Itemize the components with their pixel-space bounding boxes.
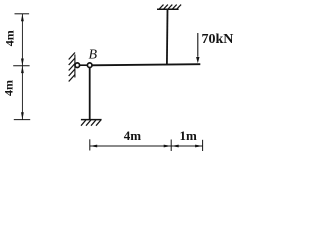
wall line of pin support bbox=[74, 55, 76, 78]
ceiling line of top fixed support bbox=[157, 8, 179, 10]
dimension arrow up from below middle tick bbox=[21, 66, 24, 73]
dimension arrow down to middle tick bbox=[21, 59, 24, 66]
base line of bottom fixed support bbox=[81, 119, 102, 121]
bottom arrow left of 1m bbox=[171, 145, 179, 148]
wall hatch 3 bbox=[69, 64, 75, 71]
svg-text:B: B bbox=[89, 48, 98, 63]
ceiling hatch 4 bbox=[172, 5, 176, 9]
svg-text:4m: 4m bbox=[124, 128, 142, 143]
dimension arrow down bottom bbox=[21, 112, 24, 119]
dimension line left vertical bbox=[21, 14, 23, 120]
dimension arrow up top bbox=[21, 14, 24, 21]
svg-text:70kN: 70kN bbox=[202, 32, 234, 47]
dimension line bottom horizontal bbox=[90, 145, 203, 147]
hinge circle at node B bbox=[87, 63, 92, 68]
bottom arrow right of 1m bbox=[195, 145, 203, 148]
pin circle at wall bbox=[75, 63, 80, 68]
wall hatch 2 bbox=[69, 58, 75, 65]
wall hatch 1 bbox=[69, 53, 75, 60]
base hatch 1 bbox=[81, 120, 86, 126]
dimension tick bottom bbox=[14, 119, 30, 121]
base hatch 2 bbox=[86, 120, 91, 126]
svg-text:4m: 4m bbox=[3, 30, 17, 46]
bottom tick middle bbox=[170, 140, 172, 152]
ceiling hatch 1 bbox=[159, 5, 163, 9]
base hatch 3 bbox=[91, 120, 96, 126]
svg-text:4m: 4m bbox=[2, 80, 16, 96]
ceiling hatch 2 bbox=[164, 5, 168, 9]
ceiling hatch 5 bbox=[177, 5, 181, 9]
ceiling hatch 3 bbox=[168, 5, 172, 9]
svg-text:1m: 1m bbox=[180, 128, 198, 143]
beam from B to right end bbox=[90, 64, 201, 65]
top vertical member bbox=[166, 9, 169, 65]
bottom tick right bbox=[202, 140, 204, 151]
wall hatch 5 bbox=[69, 75, 75, 82]
bottom arrow left of 4m bbox=[90, 145, 98, 148]
dimension tick middle bbox=[13, 65, 29, 67]
wall hatch 4 bbox=[69, 69, 75, 76]
base hatch 4 bbox=[96, 120, 101, 126]
column below B bbox=[89, 65, 91, 120]
bottom tick left bbox=[89, 139, 91, 150]
bottom arrow right of 4m bbox=[164, 145, 172, 148]
load arrowhead bbox=[196, 57, 199, 63]
load arrow line 70kN bbox=[197, 33, 199, 57]
dimension tick top bbox=[15, 13, 30, 15]
link between support pin and node B bbox=[77, 64, 89, 66]
